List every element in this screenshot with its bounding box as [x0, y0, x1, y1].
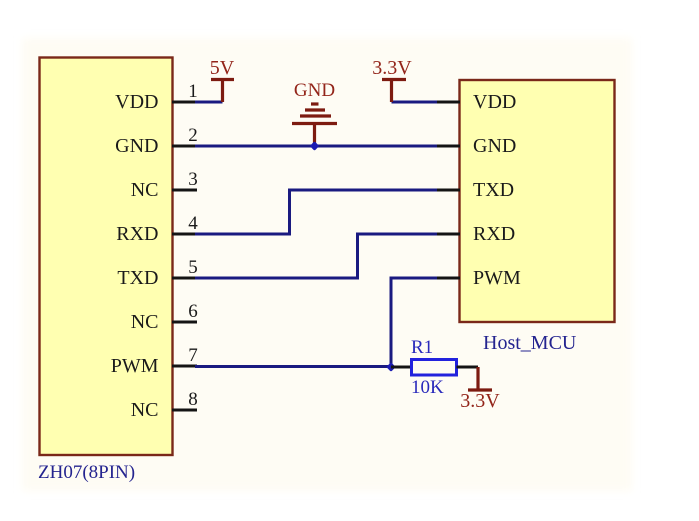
wire to Host_MCU TXD [288, 189, 437, 192]
pin stub Host_MCU TXD [436, 189, 460, 192]
svg-text:TXD: TXD [473, 179, 514, 201]
component Host_MCU body [460, 80, 615, 322]
pin stub Host_MCU RXD [436, 233, 460, 236]
svg-text:PWM: PWM [473, 267, 521, 289]
wire 3.3V to Host_MCU VDD [392, 101, 438, 104]
wire RXD-TXD riser [288, 189, 291, 236]
svg-text:3.3V: 3.3V [372, 57, 412, 79]
svg-text:VDD: VDD [115, 91, 158, 113]
pin stub ZH07 pin 8 (NC) [172, 409, 197, 412]
svg-text:Host_MCU: Host_MCU [483, 332, 577, 354]
sheet background (cream page area) [22, 38, 632, 491]
wire GND net (ZH07 pin2 to Host_MCU GND) [195, 145, 437, 148]
resistor R1 body [412, 360, 457, 376]
wire ZH07 RXD horizontal run [195, 233, 290, 236]
svg-text:3: 3 [188, 169, 198, 190]
power symbol 3.3V (bottom, inverted) bar [468, 388, 492, 391]
svg-text:1: 1 [188, 81, 198, 102]
svg-text:GND: GND [115, 135, 158, 157]
ground symbol GND plate 3 [305, 108, 325, 111]
wire to Host_MCU RXD [356, 233, 437, 236]
wire Host_MCU PWM horizontal [391, 277, 437, 280]
power symbol 3.3V (bottom, inverted) stem [476, 367, 479, 390]
pin stub Host_MCU PWM [436, 277, 460, 280]
junction GND net [310, 141, 320, 151]
pin stub Host_MCU GND [436, 145, 460, 148]
pin stub ZH07 pin 1 [172, 101, 197, 104]
svg-text:R1: R1 [411, 337, 433, 358]
svg-text:5: 5 [188, 257, 198, 278]
power symbol 3.3V (top) bar [382, 78, 406, 81]
junction PWM node [386, 362, 396, 372]
wire resistor R1 to 3.3V [457, 366, 479, 369]
power symbol 3.3V (top) stem [390, 80, 393, 103]
svg-text:NC: NC [131, 399, 159, 421]
wire ZH07 pin1 to 5V [195, 101, 223, 104]
svg-text:RXD: RXD [473, 223, 515, 245]
ground symbol GND plate 4 (top dash) [311, 102, 319, 105]
svg-text:5V: 5V [210, 57, 235, 79]
ground symbol GND plate 1 (widest) [292, 122, 337, 125]
pin stub ZH07 pin 4 [172, 233, 197, 236]
svg-text:ZH07(8PIN): ZH07(8PIN) [38, 462, 135, 483]
svg-text:8: 8 [188, 389, 198, 410]
svg-text:3.3V: 3.3V [460, 390, 500, 412]
svg-text:2: 2 [188, 125, 198, 146]
pin stub ZH07 pin 6 (NC) [172, 321, 197, 324]
wire junction to resistor R1 [391, 366, 412, 369]
svg-text:PWM: PWM [111, 355, 159, 377]
pin stub ZH07 pin 2 [172, 145, 197, 148]
pin stub ZH07 pin 3 (NC) [172, 189, 197, 192]
pin stub ZH07 pin 5 [172, 277, 197, 280]
component ZH07(8PIN) body [40, 58, 173, 456]
ground symbol GND plate 2 [300, 114, 331, 117]
svg-text:NC: NC [131, 179, 159, 201]
svg-text:6: 6 [188, 301, 198, 322]
svg-text:GND: GND [473, 135, 516, 157]
svg-text:TXD: TXD [117, 267, 158, 289]
svg-text:VDD: VDD [473, 91, 516, 113]
ground symbol GND stem [313, 124, 316, 146]
wire PWM riser down to junction [390, 277, 393, 368]
wire ZH07 PWM to junction [195, 365, 391, 368]
svg-text:NC: NC [131, 311, 159, 333]
pin stub ZH07 pin 7 [172, 365, 197, 368]
pin stub Host_MCU VDD [436, 101, 460, 104]
svg-text:4: 4 [188, 213, 198, 234]
power symbol 5V bar [211, 78, 234, 81]
svg-text:7: 7 [188, 345, 198, 366]
power symbol 5V stem [221, 80, 224, 103]
wire ZH07 TXD horizontal run [195, 277, 358, 280]
svg-text:10K: 10K [411, 377, 444, 398]
svg-text:GND: GND [294, 80, 335, 101]
wire TXD-RXD riser [356, 233, 359, 280]
svg-text:RXD: RXD [116, 223, 158, 245]
